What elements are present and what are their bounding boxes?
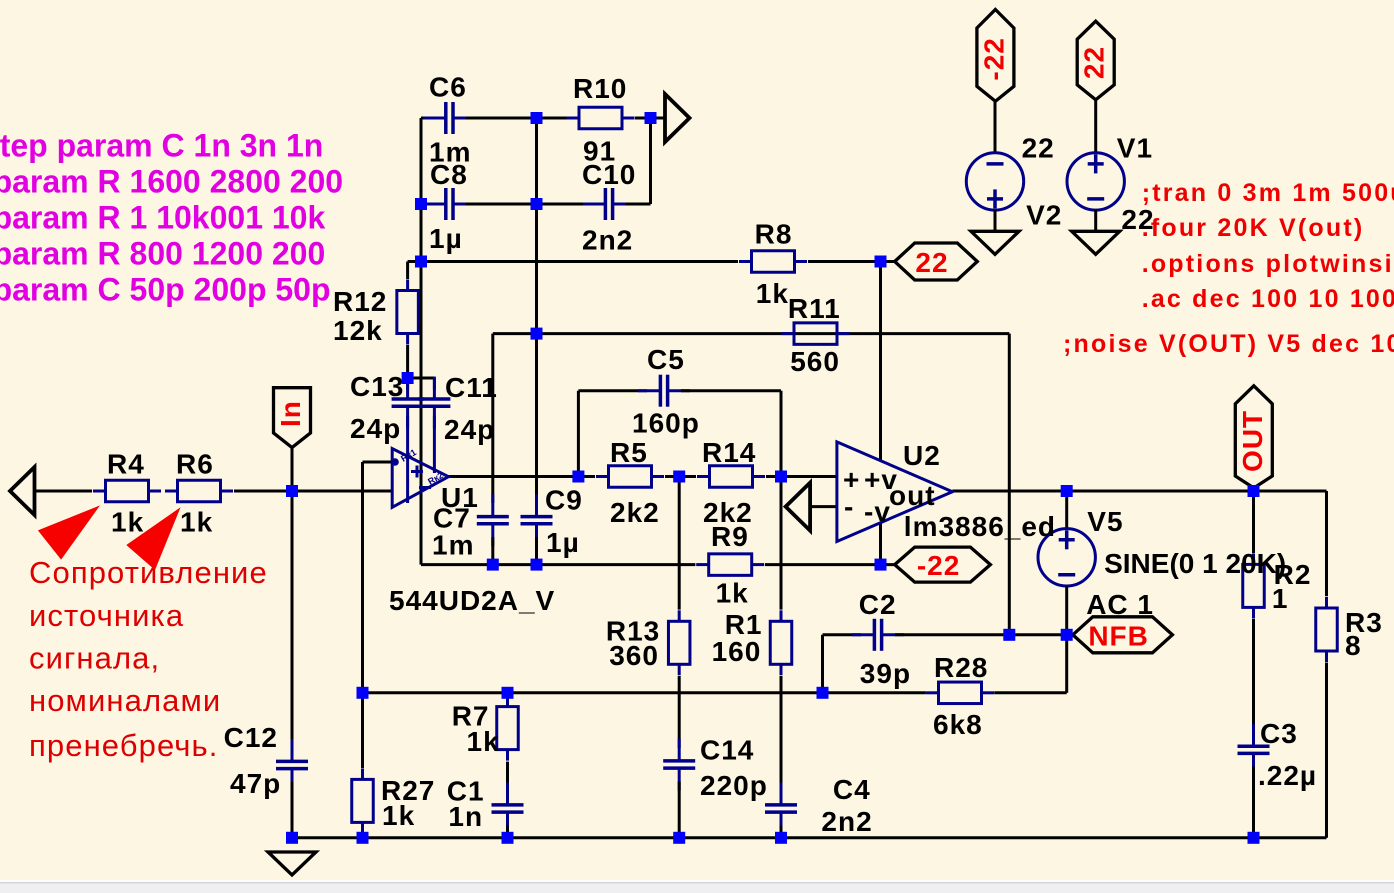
svg-text:R5: R5 — [610, 437, 648, 468]
svg-text:C4: C4 — [833, 774, 871, 805]
svg-text:R9: R9 — [711, 521, 749, 552]
svg-text:SINE(0 1 20K): SINE(0 1 20K) — [1104, 548, 1286, 579]
svg-text:24p: 24p — [444, 414, 495, 445]
svg-text:22: 22 — [1022, 133, 1055, 164]
svg-text:160: 160 — [712, 636, 762, 667]
svg-text:U2: U2 — [903, 440, 941, 471]
svg-text:1k: 1k — [111, 507, 144, 538]
svg-text:39p: 39p — [860, 658, 911, 689]
svg-text:22: 22 — [1079, 46, 1110, 79]
svg-text:пренебречь.: пренебречь. — [29, 728, 219, 763]
svg-text:R10: R10 — [573, 73, 627, 104]
svg-text:1µ: 1µ — [546, 527, 580, 558]
svg-text:C11: C11 — [445, 372, 498, 403]
svg-text:1: 1 — [1272, 583, 1289, 614]
svg-text:12k: 12k — [333, 315, 383, 346]
svg-text:2n2: 2n2 — [821, 806, 872, 837]
svg-text:C2: C2 — [859, 589, 897, 620]
svg-text:C6: C6 — [429, 72, 467, 103]
svg-text:V1: V1 — [1117, 133, 1153, 164]
svg-text:.22µ: .22µ — [1258, 760, 1317, 791]
svg-text:-22: -22 — [978, 37, 1009, 80]
svg-text:сигнала,: сигнала, — [29, 641, 160, 676]
svg-text:R28: R28 — [934, 652, 988, 683]
svg-text:.four 20K V(out): .four 20K V(out) — [1142, 214, 1365, 242]
svg-text:R8: R8 — [755, 219, 793, 250]
svg-text:1m: 1m — [432, 530, 474, 561]
svg-text:360: 360 — [609, 640, 659, 671]
svg-text:.step param R 1600 2800 200: .step param R 1600 2800 200 — [0, 164, 343, 200]
svg-text:1n: 1n — [448, 801, 483, 832]
svg-text:22: 22 — [915, 247, 948, 278]
svg-text:V2: V2 — [1026, 200, 1062, 231]
svg-text:R14: R14 — [702, 437, 756, 468]
svg-text:-v: -v — [864, 496, 891, 527]
svg-text:lm3886_ed: lm3886_ed — [904, 511, 1056, 542]
svg-text:.step param C 1n 3n 1n: .step param C 1n 3n 1n — [0, 128, 323, 164]
svg-text:источника: источника — [29, 598, 184, 633]
svg-text:;noise V(OUT) V5 dec 100 10 10: ;noise V(OUT) V5 dec 100 10 100K — [1063, 330, 1394, 358]
svg-text:OUT: OUT — [1237, 410, 1268, 472]
svg-text:V5: V5 — [1087, 506, 1123, 537]
svg-text:NFB: NFB — [1088, 620, 1149, 651]
svg-text:2n2: 2n2 — [582, 225, 633, 256]
svg-text:C9: C9 — [545, 485, 583, 516]
svg-text:2k2: 2k2 — [610, 497, 660, 528]
svg-text:R4: R4 — [107, 449, 145, 480]
svg-text:C8: C8 — [430, 159, 468, 190]
svg-text:C5: C5 — [647, 344, 685, 375]
svg-text:R11: R11 — [788, 293, 841, 324]
svg-text:1µ: 1µ — [429, 223, 463, 254]
svg-text:1k: 1k — [382, 800, 415, 831]
svg-text:.step param C 50p 200p 50p: .step param C 50p 200p 50p — [0, 272, 331, 308]
svg-text:1k: 1k — [467, 726, 500, 757]
svg-text:-22: -22 — [917, 550, 960, 581]
svg-text:24p: 24p — [350, 413, 401, 444]
svg-text:.ac dec 100 10 100k: .ac dec 100 10 100k — [1142, 285, 1394, 313]
svg-text:220p: 220p — [700, 770, 768, 801]
svg-text:AC 1: AC 1 — [1086, 589, 1154, 620]
svg-text:C3: C3 — [1260, 718, 1298, 749]
svg-text:.step param R 1 10k001 10k: .step param R 1 10k001 10k — [0, 200, 325, 236]
svg-text:1k: 1k — [716, 578, 749, 609]
svg-text:.step param R 800 1200 200: .step param R 800 1200 200 — [0, 236, 325, 272]
svg-text:C10: C10 — [582, 159, 636, 190]
svg-text:C14: C14 — [700, 735, 754, 766]
svg-text:47p: 47p — [230, 768, 281, 799]
svg-text:;tran 0 3m 1m 500u: ;tran 0 3m 1m 500u — [1142, 179, 1394, 207]
svg-text:1k: 1k — [180, 507, 213, 538]
svg-text:.options plotwinsize=0: .options plotwinsize=0 — [1142, 250, 1394, 278]
svg-text:560: 560 — [790, 346, 840, 377]
svg-text:1k: 1k — [756, 278, 789, 309]
svg-text:номиналами: номиналами — [29, 683, 221, 718]
svg-text:544UD2A_V: 544UD2A_V — [389, 585, 555, 616]
svg-text:R12: R12 — [333, 286, 387, 317]
svg-text:C13: C13 — [350, 371, 404, 402]
svg-text:out: out — [889, 480, 936, 511]
svg-text:C12: C12 — [224, 722, 278, 753]
svg-text:8: 8 — [1345, 630, 1362, 661]
svg-text:160p: 160p — [632, 408, 700, 439]
svg-text:6k8: 6k8 — [933, 709, 983, 740]
svg-text:R6: R6 — [176, 449, 214, 480]
svg-text:-: - — [844, 491, 854, 522]
svg-text:In: In — [275, 400, 306, 427]
